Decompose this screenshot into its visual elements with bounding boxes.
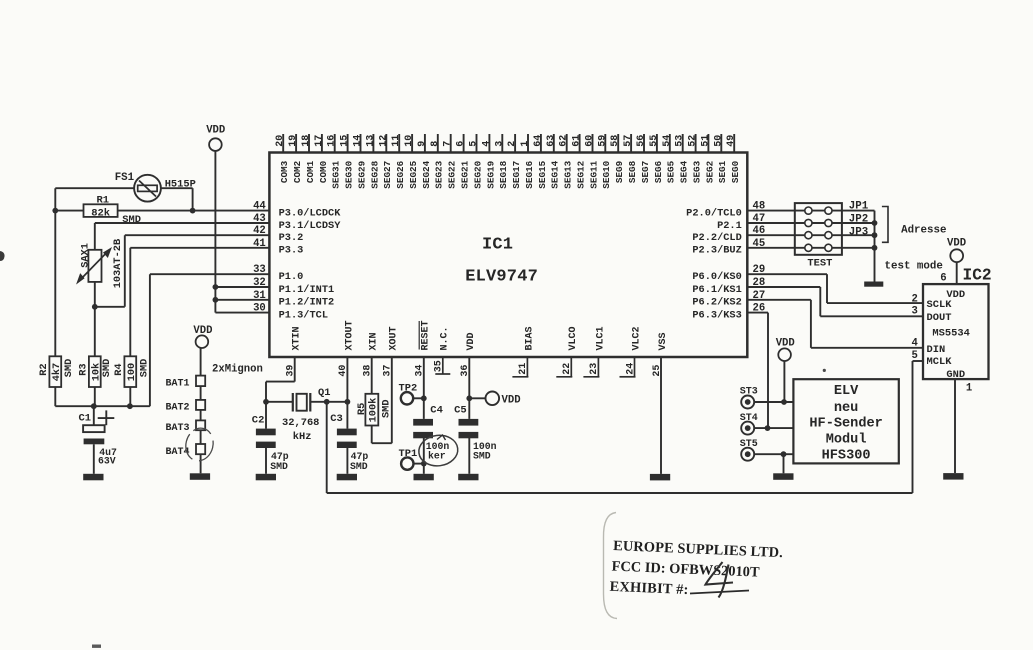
svg-text:JP3: JP3: [849, 226, 868, 238]
svg-text:SEG1: SEG1: [717, 160, 728, 183]
svg-text:2: 2: [912, 293, 918, 305]
svg-text:15: 15: [340, 135, 351, 147]
svg-text:C3: C3: [330, 413, 343, 425]
svg-text:13: 13: [365, 135, 376, 147]
svg-text:ST5: ST5: [740, 439, 758, 450]
svg-text:4: 4: [481, 141, 492, 147]
svg-text:SEG9: SEG9: [614, 160, 625, 183]
svg-text:4: 4: [912, 338, 919, 350]
svg-text:55: 55: [649, 135, 660, 147]
svg-text:SEG20: SEG20: [472, 160, 483, 188]
svg-text:50: 50: [713, 135, 724, 147]
svg-text:C1: C1: [79, 413, 92, 425]
svg-text:6: 6: [456, 141, 467, 147]
svg-text:COM0: COM0: [318, 160, 329, 183]
svg-text:32,768: 32,768: [282, 417, 319, 429]
svg-text:SEG2: SEG2: [704, 160, 715, 183]
svg-text:XIN: XIN: [369, 332, 380, 350]
svg-text:JP2: JP2: [849, 213, 868, 225]
svg-text:SEG21: SEG21: [460, 160, 471, 188]
svg-text:5: 5: [912, 350, 918, 362]
svg-text:SEG15: SEG15: [537, 160, 548, 188]
svg-text:SEG0: SEG0: [730, 160, 741, 183]
svg-text:P6.2/KS2: P6.2/KS2: [692, 297, 741, 309]
svg-text:RESET: RESET: [421, 320, 432, 350]
svg-text:VLCO: VLCO: [568, 326, 579, 350]
svg-text:100k: 100k: [368, 398, 380, 423]
svg-text:SEG30: SEG30: [344, 160, 355, 188]
svg-text:20: 20: [275, 135, 286, 147]
svg-text:SMD: SMD: [270, 461, 288, 472]
svg-text:EXHIBIT #:: EXHIBIT #:: [609, 579, 689, 598]
svg-text:35: 35: [434, 360, 445, 372]
svg-text:XTIN: XTIN: [292, 326, 303, 350]
svg-text:5: 5: [469, 141, 480, 147]
svg-text:ST3: ST3: [740, 387, 758, 398]
svg-text:19: 19: [288, 135, 299, 147]
svg-text:3: 3: [494, 141, 505, 147]
svg-text:C5: C5: [454, 404, 467, 416]
svg-text:17: 17: [314, 135, 325, 147]
svg-text:10: 10: [404, 135, 415, 147]
svg-text:FS1: FS1: [115, 172, 135, 184]
svg-text:SMD: SMD: [350, 461, 368, 472]
svg-text:TP1: TP1: [399, 448, 418, 460]
svg-text:59: 59: [597, 135, 608, 147]
svg-text:61: 61: [572, 135, 583, 147]
svg-text:P3.3: P3.3: [279, 245, 304, 257]
svg-text:51: 51: [700, 135, 711, 147]
svg-text:SEG8: SEG8: [627, 160, 638, 183]
svg-text:P1.1/INT1: P1.1/INT1: [279, 284, 335, 296]
svg-text:XOUT: XOUT: [389, 326, 400, 350]
svg-text:SEG27: SEG27: [382, 161, 393, 189]
svg-text:SMD: SMD: [473, 450, 491, 461]
svg-text:XTOUT: XTOUT: [344, 320, 355, 350]
svg-text:4k7: 4k7: [51, 363, 63, 382]
svg-text:C2: C2: [252, 415, 265, 427]
svg-text:Q1: Q1: [318, 387, 330, 399]
svg-text:COM3: COM3: [279, 160, 290, 183]
svg-text:R1: R1: [97, 195, 110, 207]
svg-text:12: 12: [378, 135, 389, 147]
svg-text:18: 18: [301, 135, 312, 147]
svg-text:SCLK: SCLK: [927, 299, 953, 311]
svg-text:57: 57: [623, 135, 634, 147]
svg-text:R4: R4: [113, 363, 125, 375]
svg-text:63: 63: [546, 135, 557, 147]
svg-text:R2: R2: [38, 363, 50, 375]
svg-text:7: 7: [443, 141, 454, 147]
svg-text:BIAS: BIAS: [524, 326, 535, 350]
svg-text:DIN: DIN: [927, 344, 946, 356]
svg-text:SMD: SMD: [63, 359, 75, 378]
svg-text:82k: 82k: [91, 208, 110, 220]
svg-text:C4: C4: [430, 404, 443, 416]
svg-text:P2.1: P2.1: [717, 220, 742, 232]
svg-text:DOUT: DOUT: [927, 312, 952, 324]
svg-text:SEG11: SEG11: [588, 160, 599, 188]
svg-text:SEG12: SEG12: [576, 160, 587, 188]
svg-text:Adresse: Adresse: [901, 225, 946, 237]
svg-text:HF-Sender: HF-Sender: [809, 417, 882, 432]
svg-text:BAT3: BAT3: [165, 423, 189, 434]
svg-text:MCLK: MCLK: [927, 356, 953, 368]
svg-text:SMD: SMD: [122, 214, 141, 226]
svg-text:SEG10: SEG10: [601, 160, 612, 188]
svg-text:ELV: ELV: [834, 384, 859, 399]
svg-text:Modul: Modul: [826, 433, 867, 448]
svg-text:SEG16: SEG16: [524, 160, 535, 188]
svg-text:SEG22: SEG22: [447, 160, 458, 188]
svg-text:SEG29: SEG29: [356, 160, 367, 188]
svg-text:JP1: JP1: [849, 200, 869, 212]
svg-text:N.C.: N.C.: [440, 326, 451, 350]
svg-text:COM2: COM2: [292, 160, 303, 183]
svg-text:62: 62: [559, 135, 570, 147]
svg-text:SEG5: SEG5: [666, 160, 677, 183]
svg-text:22: 22: [562, 363, 573, 375]
svg-text:14: 14: [353, 135, 364, 147]
svg-text:ST4: ST4: [740, 413, 758, 424]
svg-text:R5: R5: [356, 403, 368, 415]
svg-text:P1.3/TCL: P1.3/TCL: [279, 310, 328, 322]
svg-text:P2.0/TCL0: P2.0/TCL0: [686, 208, 742, 220]
svg-text:VDD: VDD: [502, 394, 521, 406]
svg-text:2xMignon: 2xMignon: [212, 363, 263, 375]
svg-text:ELV9747: ELV9747: [465, 268, 538, 287]
svg-text:16: 16: [327, 135, 338, 147]
svg-text:2: 2: [507, 141, 518, 147]
svg-text:SEG13: SEG13: [563, 160, 574, 188]
svg-text:SEG25: SEG25: [408, 160, 419, 188]
svg-text:VSS: VSS: [658, 332, 669, 350]
svg-text:23: 23: [589, 363, 600, 375]
svg-text:52: 52: [688, 135, 699, 147]
svg-text:1: 1: [520, 141, 531, 147]
svg-text:3: 3: [912, 306, 918, 318]
svg-text:21: 21: [518, 363, 529, 375]
svg-text:BAT2: BAT2: [165, 403, 189, 414]
svg-text:HFS300: HFS300: [822, 449, 871, 464]
svg-text:VDD: VDD: [776, 338, 795, 350]
svg-text:SEG7: SEG7: [640, 161, 651, 183]
svg-text:P3.0/LCDCK: P3.0/LCDCK: [279, 208, 342, 220]
svg-text:9: 9: [417, 141, 428, 147]
svg-text:SEG18: SEG18: [498, 160, 509, 188]
svg-text:VDD: VDD: [466, 332, 477, 350]
svg-text:COM1: COM1: [305, 160, 316, 183]
svg-text:P3.2: P3.2: [279, 232, 304, 244]
svg-text:60: 60: [585, 135, 596, 147]
svg-text:SEG28: SEG28: [369, 160, 380, 188]
svg-text:R3: R3: [78, 363, 90, 375]
svg-text:MS5534: MS5534: [932, 327, 969, 339]
svg-text:VDD: VDD: [193, 325, 212, 337]
svg-text:SEG19: SEG19: [485, 160, 496, 188]
svg-text:53: 53: [675, 135, 686, 147]
svg-text:49: 49: [726, 135, 737, 147]
svg-text:SEG17: SEG17: [511, 161, 522, 189]
svg-text:24: 24: [625, 363, 636, 375]
svg-text:SAX1: SAX1: [80, 243, 92, 268]
svg-text:ker: ker: [428, 450, 446, 461]
svg-text:1: 1: [966, 382, 972, 394]
svg-text:63V: 63V: [98, 456, 116, 467]
svg-text:SMD: SMD: [101, 359, 113, 378]
svg-text:P2.2/CLD: P2.2/CLD: [692, 232, 741, 244]
svg-text:SMD: SMD: [380, 399, 392, 418]
svg-text:VLC1: VLC1: [595, 326, 606, 350]
svg-text:SEG31: SEG31: [331, 160, 342, 188]
svg-text:58: 58: [610, 135, 621, 147]
svg-text:SEG26: SEG26: [395, 160, 406, 188]
svg-text:IC1: IC1: [482, 236, 513, 255]
svg-text:TP2: TP2: [399, 383, 418, 395]
svg-text:IC2: IC2: [963, 267, 992, 285]
svg-text:P1.0: P1.0: [279, 271, 304, 283]
svg-text:P3.1/LCDSY: P3.1/LCDSY: [279, 220, 342, 232]
svg-text:VLC2: VLC2: [631, 326, 642, 350]
svg-text:P6.1/KS1: P6.1/KS1: [692, 284, 741, 296]
svg-text:SEG14: SEG14: [550, 160, 561, 188]
svg-text:P6.0/KS0: P6.0/KS0: [692, 271, 741, 283]
svg-text:64: 64: [533, 135, 544, 147]
svg-text:8: 8: [430, 141, 441, 147]
svg-text:P1.2/INT2: P1.2/INT2: [279, 297, 335, 309]
svg-text:VDD: VDD: [947, 238, 966, 250]
svg-text:SEG6: SEG6: [653, 160, 664, 183]
svg-text:56: 56: [636, 135, 647, 147]
svg-text:SEG23: SEG23: [434, 160, 445, 188]
svg-text:neu: neu: [834, 401, 858, 416]
svg-text:100: 100: [126, 363, 138, 382]
svg-text:kHz: kHz: [293, 431, 312, 443]
svg-text:P6.3/KS3: P6.3/KS3: [692, 310, 741, 322]
svg-text:103AT-2B: 103AT-2B: [112, 239, 124, 288]
svg-text:11: 11: [391, 135, 402, 147]
svg-text:test mode: test mode: [885, 260, 943, 272]
svg-text:SEG24: SEG24: [421, 160, 432, 188]
svg-text:VDD: VDD: [206, 125, 225, 137]
svg-text:SEG3: SEG3: [692, 160, 703, 183]
svg-text:6: 6: [940, 272, 946, 284]
svg-text:SMD: SMD: [138, 359, 150, 378]
svg-text:BAT1: BAT1: [165, 379, 189, 390]
svg-text:SEG4: SEG4: [679, 160, 690, 183]
svg-text:54: 54: [662, 135, 673, 147]
svg-text:TEST: TEST: [807, 258, 832, 270]
svg-text:P2.3/BUZ: P2.3/BUZ: [692, 245, 741, 257]
